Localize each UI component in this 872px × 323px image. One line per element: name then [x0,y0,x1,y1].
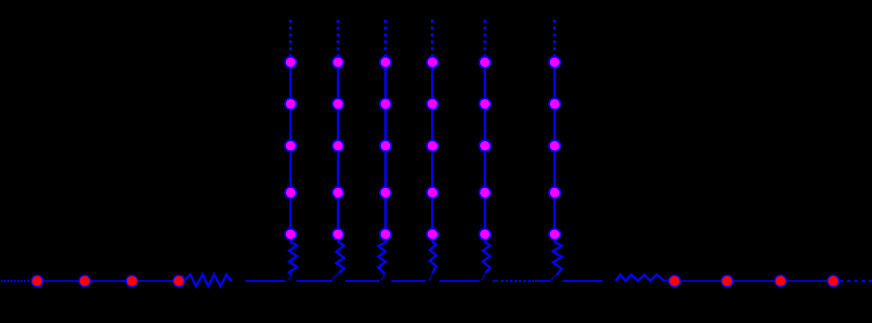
node m5_1 (chain 5 magenta node, row 1) [479,57,490,68]
wire: chain 4 dotted top segment (x=432.4) [431,20,434,57]
node m3_3 (chain 3 magenta node, row 3) [380,140,391,151]
resistor R2 (backbone, before node n5) [616,275,665,281]
wire: chain 1 resistor lower lead (faint) [289,275,292,280]
wire: chain 4 resistor lower lead (faint) [429,273,433,280]
wire: chain 3 resistor lower lead (faint) [382,274,385,280]
wire: chain 5 dotted top segment (x=484.9) [483,20,486,57]
node m4_3 (chain 4 magenta node, row 3) [427,140,438,151]
node m5_5 (chain 5 magenta node, row 5) [479,229,490,240]
wire: chain 4 vertical solid wire [431,56,433,235]
node m4_4 (chain 4 magenta node, row 4) [427,187,438,198]
node n6 (red backbone node) [721,275,733,287]
wire: chain 5 vertical solid wire [484,56,486,235]
resistor R4 (chain 2, connects chain to backbone) [336,240,344,273]
wire: backbone short dash before chain 6 [535,280,551,282]
wire: backbone dash segment 1 [245,280,285,282]
node m6_5 (chain 6 magenta node, row 5) [549,229,560,240]
node m3_5 (chain 3 magenta node, row 5) [380,229,391,240]
resistor R1 (backbone, between node n4 and dashed bus) [184,275,231,287]
node m1_1 (chain 1 magenta node, row 1) [285,57,296,68]
wire: chain 3 dotted top segment (x=385.5) [384,20,387,57]
node m1_3 (chain 1 magenta node, row 3) [285,140,296,151]
wire: backbone dash segment 2 [296,280,332,282]
node m4_5 (chain 4 magenta node, row 5) [427,229,438,240]
node n1 (red backbone node) [31,275,43,287]
wire: left boundary dotted backbone segment [1,280,31,283]
node m4_2 (chain 4 magenta node, row 2) [427,98,438,109]
node n5 (red backbone node) [669,275,681,287]
wire: chain 6 dotted top segment (x=554.6) [553,20,556,57]
resistor R3 (chain 1, connects chain to backbone) [289,240,297,276]
resistor R7 (chain 5, connects chain to backbone) [483,240,490,273]
wire: backbone dash segment 5 [439,280,479,282]
node m1_5 (chain 1 magenta node, row 5) [285,229,296,240]
node n4 (red backbone node) [173,275,185,287]
node m6_3 (chain 6 magenta node, row 3) [549,140,560,151]
wire: chain 6 vertical solid wire [553,56,555,235]
node n7 (red backbone node) [775,275,787,287]
resistor R8 (chain 6, connects chain to backbone) [553,240,562,275]
node m3_4 (chain 3 magenta node, row 4) [380,187,391,198]
node n2 (red backbone node) [79,275,91,287]
resistor R5 (chain 3, connects chain to backbone) [378,240,386,275]
node m2_1 (chain 2 magenta node, row 1) [332,57,343,68]
wire: backbone dash segment 4 [392,280,426,282]
wire: chain 5 resistor lower lead (faint) [482,273,486,281]
node m5_4 (chain 5 magenta node, row 4) [479,187,490,198]
node m6_2 (chain 6 magenta node, row 2) [549,98,560,109]
wire: backbone fine-dotted segment between chains 5 and 6 [501,280,534,282]
node m5_3 (chain 5 magenta node, row 3) [479,140,490,151]
node m2_5 (chain 2 magenta node, row 5) [332,229,343,240]
resistor R6 (chain 4, connects chain to backbone) [430,240,436,274]
wire: backbone dash segment 3 [345,280,379,282]
node m6_4 (chain 6 magenta node, row 4) [549,187,560,198]
node m4_1 (chain 4 magenta node, row 1) [427,57,438,68]
node m2_4 (chain 2 magenta node, row 4) [332,187,343,198]
wire: chain 6 resistor lower lead (faint) [551,275,557,280]
node m2_2 (chain 2 magenta node, row 2) [332,98,343,109]
wire: backbone short dash after chain 5 [493,280,498,282]
node m2_3 (chain 2 magenta node, row 3) [332,140,343,151]
node m5_2 (chain 5 magenta node, row 2) [479,98,490,109]
wire: left backbone solid segment through nodes n1-n4 [37,280,179,282]
node n3 (red backbone node) [126,275,138,287]
node n8 (red backbone node) [827,275,839,287]
wire: chain 2 vertical solid wire [337,56,339,235]
wire: backbone dash segment 6 [562,280,602,282]
wire: right boundary dotted backbone segment [840,280,872,283]
wire: chain 1 vertical solid wire [289,56,291,235]
wire: right backbone solid segment through nodes n5-n8 [664,280,833,282]
wire: chain 3 vertical solid wire [384,56,386,235]
node m3_1 (chain 3 magenta node, row 1) [380,57,391,68]
node m1_2 (chain 1 magenta node, row 2) [285,98,296,109]
wire: chain 2 resistor lower lead (faint) [332,273,339,280]
wire: chain 1 dotted top segment (x=290.6) [289,20,292,57]
node m6_1 (chain 6 magenta node, row 1) [549,57,560,68]
wire: chain 2 dotted top segment (x=338.0) [337,20,340,57]
node m3_2 (chain 3 magenta node, row 2) [380,98,391,109]
node m1_4 (chain 1 magenta node, row 4) [285,187,296,198]
